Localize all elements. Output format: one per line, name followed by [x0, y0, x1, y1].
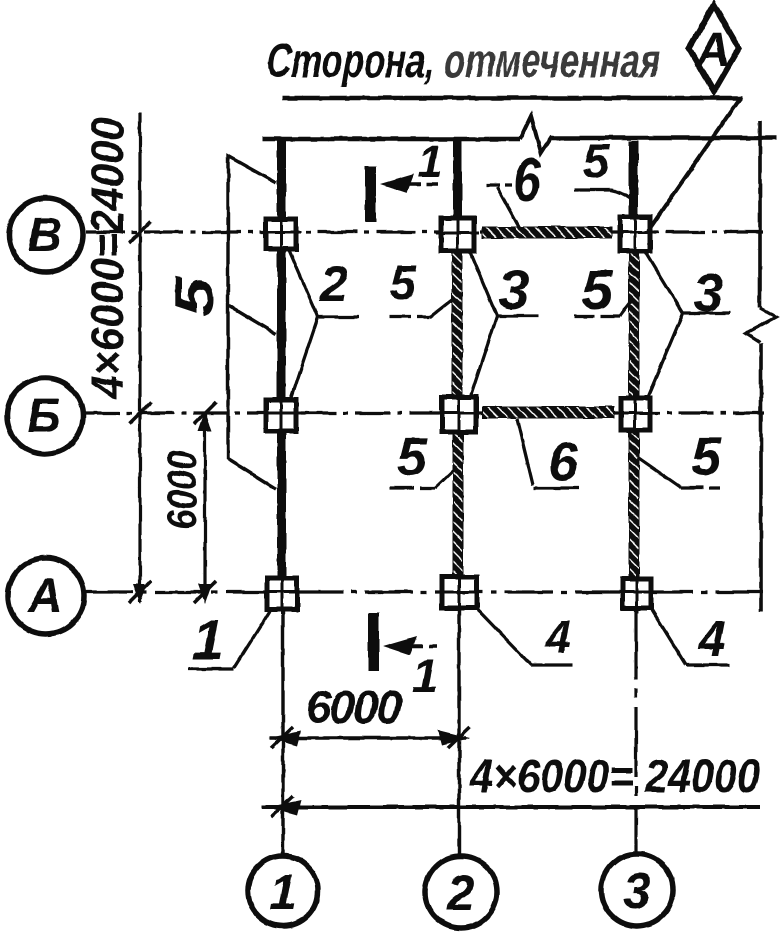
svg-text:1: 1 [269, 864, 297, 920]
svg-text:3: 3 [498, 258, 529, 321]
svg-text:А: А [695, 24, 731, 77]
svg-text:5: 5 [583, 134, 610, 187]
svg-text:5: 5 [691, 427, 722, 487]
svg-text:6000: 6000 [306, 681, 403, 733]
svg-text:В: В [28, 209, 63, 262]
svg-text:6: 6 [548, 432, 579, 492]
svg-text:4: 4 [544, 611, 571, 663]
svg-text:4: 4 [697, 611, 726, 667]
svg-text:5: 5 [581, 258, 613, 321]
svg-text:5: 5 [397, 427, 428, 487]
svg-text:Сторона, отмеченная: Сторона, отмеченная [266, 33, 662, 87]
svg-text:5: 5 [390, 257, 418, 310]
svg-text:2: 2 [446, 865, 475, 921]
svg-text:1: 1 [412, 649, 438, 702]
svg-text:4×6000= 24000: 4×6000= 24000 [469, 751, 760, 803]
svg-text:3: 3 [693, 263, 723, 323]
svg-text:5: 5 [163, 275, 225, 316]
svg-text:6000: 6000 [159, 450, 205, 530]
svg-text:Б: Б [27, 390, 61, 443]
svg-text:6: 6 [513, 145, 541, 215]
svg-text:3: 3 [623, 863, 651, 919]
svg-text:А: А [27, 570, 63, 623]
svg-text:4×6000=24000: 4×6000=24000 [84, 117, 134, 399]
svg-text:1: 1 [192, 608, 224, 672]
svg-text:2: 2 [319, 256, 348, 312]
svg-text:1: 1 [417, 136, 442, 187]
